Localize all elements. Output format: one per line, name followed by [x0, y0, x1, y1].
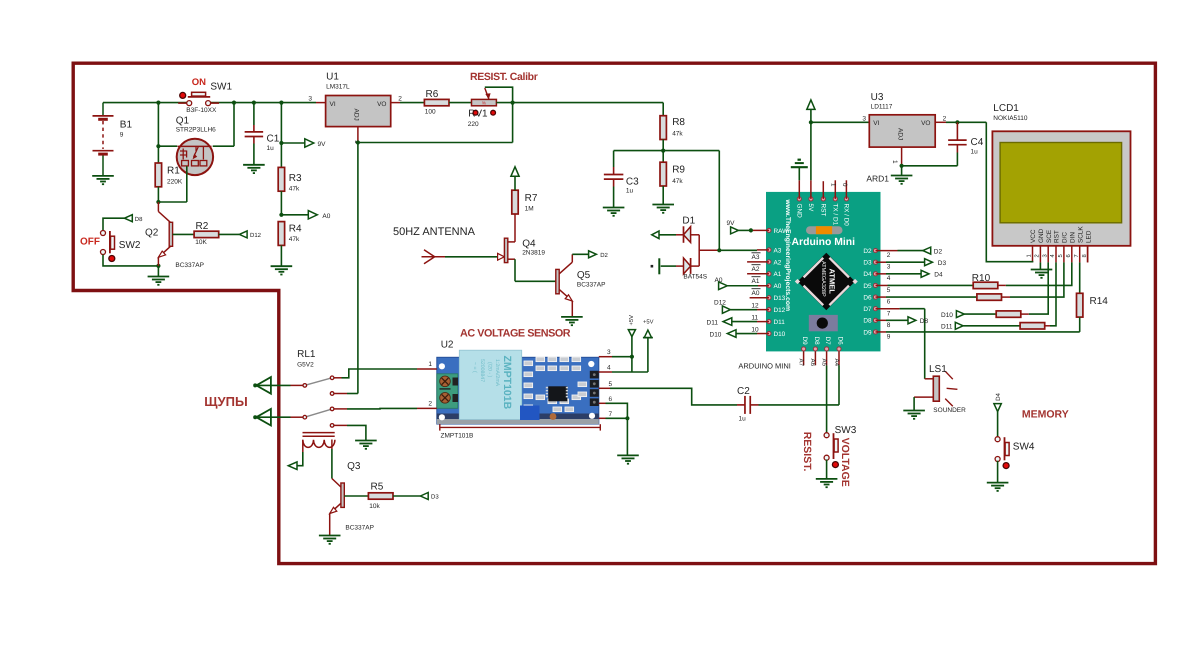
wire D11 row — [732, 321, 769, 323]
svg-text:8: 8 — [887, 322, 891, 329]
wire contact1 NO to U2 pin1 — [334, 369, 417, 378]
svg-text:ZMPT101B: ZMPT101B — [441, 433, 474, 440]
junction node C4 — [955, 120, 959, 124]
junction node A3 — [717, 248, 721, 252]
wire coil to Q3 collector — [331, 440, 333, 479]
power +5V terminal down triangle — [628, 315, 635, 372]
terminal stub left of BAT54S — [651, 258, 676, 274]
svg-text:47k: 47k — [672, 178, 683, 185]
svg-text:R1: R1 — [167, 166, 180, 177]
svg-text:RESIST.: RESIST. — [801, 432, 813, 472]
wire D8 to SW2 — [103, 218, 125, 230]
wire D8 row — [876, 319, 910, 321]
transistor Q4 2N3819 — [498, 238, 546, 262]
wire divider to A3 column — [718, 151, 720, 251]
svg-text:~ = (: ~ = ( — [472, 362, 478, 373]
wire Q5 collector to D2 — [572, 253, 588, 255]
antenna symbol — [422, 250, 446, 264]
transistor Q2 BC337AP — [145, 202, 204, 269]
terminal D2 at Arduino — [923, 247, 943, 255]
wire D4 row — [876, 273, 923, 275]
wire U2 pin5 stub — [599, 387, 610, 389]
svg-text:3: 3 — [308, 96, 312, 103]
terminal D12 into Arduino — [722, 306, 730, 313]
svg-text:A2: A2 — [774, 259, 782, 266]
wire Q1 left lead — [158, 145, 177, 147]
svg-text:D4: D4 — [934, 271, 943, 278]
svg-text:12: 12 — [751, 303, 759, 310]
svg-text:A0: A0 — [774, 283, 782, 290]
crystal on Arduino — [809, 315, 838, 331]
svg-text:A3: A3 — [752, 254, 760, 261]
ground for SW3 — [816, 460, 838, 489]
power +5V arrow up — [643, 320, 654, 373]
wire LCD RST column — [1050, 262, 1056, 325]
wire Q4 source to Q5 base — [515, 259, 556, 281]
svg-text:RST: RST — [1054, 230, 1061, 243]
svg-text:D10: D10 — [774, 331, 786, 338]
svg-text:D12: D12 — [250, 232, 262, 239]
Arduino top pin names — [796, 204, 850, 227]
svg-text:NOKIA5110: NOKIA5110 — [993, 115, 1028, 122]
svg-text:9: 9 — [120, 132, 124, 139]
svg-text:2: 2 — [1034, 254, 1041, 257]
probe terminal 2 — [253, 409, 271, 426]
ground for LS1 — [903, 397, 925, 420]
ground for Q3 — [319, 535, 341, 537]
svg-text:D8: D8 — [813, 337, 820, 346]
svg-text:3: 3 — [1041, 254, 1048, 257]
net label A2 — [752, 265, 761, 273]
wire Q1 right to rail — [213, 103, 234, 147]
ground for R4 — [271, 265, 293, 267]
svg-text:D2: D2 — [600, 252, 608, 259]
svg-text:0: 0 — [841, 183, 848, 187]
svg-text:C3: C3 — [626, 176, 639, 187]
svg-text:C2: C2 — [737, 386, 750, 397]
wire D10 to R12 — [964, 313, 996, 315]
svg-text:3: 3 — [887, 264, 891, 271]
switch SW2 OFF — [80, 231, 141, 262]
svg-text:D4: D4 — [995, 392, 1002, 400]
junction node pin7 ground — [625, 416, 629, 420]
wire U1 ADJ feedback — [358, 127, 513, 143]
resistor R7 — [512, 176, 538, 242]
wire A4 to C2 row — [838, 365, 840, 405]
svg-text:6: 6 — [609, 396, 613, 403]
LCD pin numbers — [1027, 254, 1088, 258]
resistor R11 — [977, 294, 1010, 300]
wire rail to U1 — [316, 102, 326, 104]
Arduino bottom pin stubs — [804, 351, 839, 365]
resistor R4 — [278, 222, 302, 267]
wire A0 tap — [281, 214, 309, 216]
ground for Q2 — [148, 266, 170, 286]
svg-text:1: 1 — [830, 183, 837, 187]
wire D4 to SW4 — [997, 412, 999, 438]
svg-text:C4: C4 — [971, 137, 984, 148]
svg-text:10k: 10k — [369, 503, 380, 510]
svg-text:(/20 - ): (/20 - ) — [487, 362, 493, 378]
Arduino bottom pin names — [801, 337, 843, 346]
Arduino right pin names — [863, 248, 872, 336]
svg-text:BC337AP: BC337AP — [175, 262, 204, 269]
wire coil left terminal — [297, 452, 303, 466]
svg-text:R6: R6 — [426, 89, 439, 100]
terminal down arrow D4 — [994, 404, 1001, 412]
svg-text:DIN: DIN — [1070, 232, 1077, 243]
svg-text:ЩУПЫ: ЩУПЫ — [204, 394, 247, 409]
svg-text:SW4: SW4 — [1013, 442, 1035, 453]
svg-text:A1: A1 — [774, 271, 782, 278]
display LCD1 NOKIA5110 — [992, 103, 1130, 246]
wire stub LCD LED — [1087, 246, 1089, 263]
ground for C1 — [243, 164, 265, 166]
svg-text:D8: D8 — [920, 318, 929, 325]
svg-text:SW2: SW2 — [119, 240, 141, 251]
wire RV1 wiper loop — [485, 87, 513, 142]
svg-text:VO: VO — [921, 120, 930, 127]
svg-text:ATMEL: ATMEL — [828, 269, 837, 295]
power arrow above R7 — [511, 167, 519, 177]
module U2 ZMPT101B board — [437, 350, 599, 424]
svg-text:D13: D13 — [774, 295, 786, 302]
wire stub RST — [822, 181, 824, 199]
svg-text:10K: 10K — [195, 239, 207, 246]
bracket ZMPT101B — [440, 424, 601, 439]
svg-text:U1: U1 — [326, 72, 339, 83]
svg-text:6: 6 — [1065, 254, 1072, 257]
net labels A7 A6 A5 A4 — [797, 359, 839, 367]
svg-text:D1: D1 — [682, 215, 695, 226]
svg-text:SW3: SW3 — [835, 425, 857, 436]
svg-text:R9: R9 — [672, 165, 685, 176]
terminal D10 at LCD — [956, 311, 964, 318]
svg-text:R3: R3 — [289, 173, 302, 184]
terminal D3 relay — [420, 493, 439, 501]
net label A3 — [752, 253, 761, 261]
svg-text:ARD1: ARD1 — [866, 174, 889, 184]
LCD pin names — [1030, 226, 1092, 243]
svg-text:1:2mA/2mA: 1:2mA/2mA — [494, 359, 500, 387]
svg-text:R4: R4 — [289, 224, 302, 235]
LCD pin stubs — [1033, 246, 1088, 263]
wire D12 row — [730, 309, 769, 311]
wire contact2 NC to ground — [334, 425, 366, 440]
terminal D11 into Arduino — [723, 318, 732, 326]
svg-text:D11: D11 — [707, 319, 719, 326]
svg-text:R2: R2 — [196, 221, 209, 232]
resistor R14 — [1077, 293, 1109, 332]
ground for R9 — [652, 204, 674, 206]
resistor R1 — [155, 146, 183, 202]
svg-text:LED: LED — [1085, 230, 1092, 243]
svg-text:B1: B1 — [120, 120, 133, 131]
svg-text:D7: D7 — [824, 337, 831, 346]
wire R5 to D3 — [393, 495, 420, 497]
regulator U3 LD1117 — [862, 92, 946, 164]
wire R2 to D12 — [219, 233, 240, 235]
capacitor C4 — [948, 122, 984, 166]
svg-text:Q4: Q4 — [522, 238, 536, 249]
transistor Q1 STR2P3LLH6 — [176, 115, 216, 175]
wire 9V tap — [281, 142, 305, 144]
relay contact 1 — [303, 376, 334, 395]
svg-text:R8: R8 — [672, 117, 685, 128]
svg-text:Arduino Mini: Arduino Mini — [792, 237, 856, 248]
resistor R9 — [660, 151, 685, 205]
svg-text:10: 10 — [751, 327, 759, 334]
svg-text:4: 4 — [607, 365, 611, 372]
ground for C3 — [603, 207, 625, 209]
svg-text:220: 220 — [468, 121, 479, 128]
U2 pin labels left — [428, 361, 432, 407]
Arduino left pin names — [774, 228, 790, 338]
svg-text:7: 7 — [609, 411, 613, 418]
svg-text:1: 1 — [428, 361, 432, 368]
wire U1 output to R6 — [391, 102, 424, 104]
transistor Q5 BC337AP — [556, 254, 606, 317]
svg-text:SOUNDER: SOUNDER — [933, 407, 966, 414]
wire LCD DC column — [1010, 262, 1064, 297]
svg-text:52008847: 52008847 — [479, 359, 485, 382]
svg-text:D12: D12 — [714, 300, 726, 307]
terminal arrow left of D1 — [652, 231, 659, 239]
svg-text:D3: D3 — [431, 494, 439, 501]
svg-text:VI: VI — [873, 120, 879, 127]
wire D6 row — [876, 296, 977, 298]
terminal D2 output — [589, 251, 609, 259]
switch SW1 — [178, 77, 232, 114]
wire antenna to Q4 gate — [445, 256, 498, 258]
junction node RV1 output — [510, 101, 514, 105]
transistor Q3 BC337AP — [330, 461, 374, 536]
svg-text:RAW: RAW — [774, 228, 790, 235]
junction node R8 R9 — [661, 149, 665, 153]
wire stub A1 — [747, 273, 769, 275]
svg-text:D5: D5 — [863, 283, 872, 290]
svg-text:VI: VI — [330, 101, 336, 108]
terminal D10 into Arduino — [727, 330, 736, 338]
svg-text:D11: D11 — [774, 319, 786, 326]
svg-text:5: 5 — [887, 287, 891, 294]
wire LCD DIN column — [1006, 262, 1072, 285]
wire 5V pin to U3 — [811, 107, 869, 199]
capacitor C2 — [737, 386, 750, 423]
wire U2 pin1 stub — [417, 368, 437, 370]
wire C2 left to U2 pin5 — [737, 404, 745, 406]
junction node ADJ — [356, 140, 360, 144]
wire A0 row — [727, 285, 769, 287]
capacitor C3 — [604, 151, 639, 208]
battery B1 — [93, 103, 133, 176]
svg-text:RST: RST — [820, 204, 827, 217]
svg-text:A3: A3 — [774, 247, 782, 254]
wire RV1 output rail — [496, 102, 663, 104]
wire Q3 base to R5 — [344, 495, 368, 497]
svg-text:R5: R5 — [371, 482, 384, 493]
resistor R8 — [660, 103, 685, 151]
svg-text:2: 2 — [428, 401, 432, 408]
svg-text:BC337AP: BC337AP — [577, 281, 606, 288]
svg-text:TX / D1: TX / D1 — [832, 204, 839, 226]
svg-text:1u: 1u — [971, 149, 979, 156]
svg-text:+5V: +5V — [643, 320, 654, 326]
svg-text:Q1: Q1 — [176, 115, 190, 126]
wire D7 to sounder — [876, 309, 925, 379]
wire R3 column top — [280, 103, 282, 168]
svg-text:D2: D2 — [863, 248, 872, 255]
junction node R1 bottom — [156, 200, 160, 204]
junction node C1 rail — [252, 101, 256, 105]
wire divider row — [614, 150, 720, 152]
wire SW2 to ground rail — [103, 255, 158, 266]
wire ADJ to relay NC — [357, 143, 359, 394]
wire D11 to R13 — [963, 325, 1020, 327]
svg-text:STR2P3LLH6: STR2P3LLH6 — [176, 126, 216, 133]
svg-text:VCC: VCC — [1030, 229, 1037, 243]
svg-text:9V: 9V — [727, 220, 736, 227]
svg-text:SW1: SW1 — [210, 82, 232, 93]
wire stub RX — [845, 180, 847, 199]
resistor R6 — [424, 89, 449, 115]
svg-text:ATMEGA328P: ATMEGA328P — [820, 261, 826, 297]
svg-text:LCD1: LCD1 — [993, 103, 1019, 114]
wire top rail left — [103, 102, 187, 104]
svg-text:GND: GND — [1038, 228, 1045, 243]
svg-text:D10: D10 — [710, 331, 722, 338]
svg-text:D/C: D/C — [1062, 232, 1069, 243]
svg-text:11: 11 — [751, 315, 758, 322]
terminal D4 at Arduino — [921, 270, 943, 278]
U2 pin labels right — [607, 349, 613, 418]
svg-text:D6: D6 — [863, 294, 872, 301]
svg-text:D9: D9 — [801, 337, 808, 346]
svg-text:RESIST. Calibr: RESIST. Calibr — [470, 71, 538, 83]
svg-text:5V: 5V — [807, 204, 814, 213]
svg-text:A2: A2 — [752, 266, 760, 273]
junction node 5V — [809, 120, 813, 124]
svg-text:A7: A7 — [797, 359, 804, 367]
svg-text:U2: U2 — [441, 340, 454, 351]
terminal D8 — [125, 215, 144, 223]
net label A0 — [752, 289, 761, 297]
svg-text:SCLK: SCLK — [1077, 226, 1084, 243]
terminal A0 — [308, 211, 330, 220]
svg-text:2: 2 — [398, 96, 402, 103]
svg-text:AC VOLTAGE SENSOR: AC VOLTAGE SENSOR — [460, 328, 571, 340]
wire probe2 to contact — [256, 416, 303, 418]
svg-text:BAT54S: BAT54S — [683, 274, 707, 281]
wire U2 pin2 stub — [417, 407, 437, 409]
probe terminal 1 — [253, 377, 271, 394]
wire Q2 base to R2 — [173, 233, 195, 235]
module U4 Arduino Mini board — [766, 192, 881, 352]
svg-text:3: 3 — [862, 115, 866, 122]
wire LCD VCC to U3 — [986, 122, 1032, 262]
terminal 9V — [305, 139, 326, 148]
svg-text:4: 4 — [887, 275, 891, 282]
wire U2 pin4 — [599, 371, 648, 373]
ground for LCD GND — [1031, 262, 1053, 278]
ground for contact2 — [355, 440, 377, 442]
svg-text:9: 9 — [887, 334, 891, 341]
capacitor C1 — [245, 103, 280, 165]
diode BAT54S lower — [676, 258, 708, 281]
svg-text:Q3: Q3 — [347, 461, 361, 472]
svg-text:1: 1 — [891, 160, 898, 164]
svg-text:ARDUINO MINI: ARDUINO MINI — [738, 361, 791, 370]
ground ARD1 — [866, 166, 912, 185]
svg-text:SCE: SCE — [1046, 230, 1053, 243]
wire U3 output — [935, 121, 986, 123]
sounder LS1 — [914, 364, 966, 414]
power arrow +5V above Arduino — [807, 100, 815, 110]
svg-text:R7: R7 — [525, 193, 538, 204]
switch SW3 — [824, 425, 857, 468]
wire LCD SCLK to R14 — [1079, 262, 1081, 293]
wire D2 row — [876, 250, 923, 252]
junction node ARD1 — [900, 164, 904, 168]
svg-text:100: 100 — [425, 109, 436, 116]
resistor R2 — [194, 221, 219, 246]
svg-text:+5V: +5V — [629, 315, 635, 326]
svg-text:B3F-10XX: B3F-10XX — [186, 107, 217, 114]
resistor R12 — [996, 311, 1029, 317]
svg-text:OFF: OFF — [80, 236, 100, 247]
svg-text:8: 8 — [1081, 254, 1088, 257]
terminal A0 into Arduino — [719, 282, 728, 290]
resistor R13 — [1020, 323, 1050, 329]
wire arrow to D1 — [659, 234, 676, 236]
regulator U1 LM317L — [308, 72, 402, 145]
wire U2 pin3 — [599, 356, 632, 358]
wire stub TX — [834, 180, 836, 199]
svg-text:Q2: Q2 — [145, 228, 159, 239]
svg-text:D11: D11 — [941, 324, 953, 331]
svg-text:A0: A0 — [322, 213, 330, 220]
svg-text:VOLTAGE: VOLTAGE — [839, 438, 851, 487]
wire D3 row — [876, 261, 926, 263]
svg-text:U3: U3 — [871, 92, 884, 103]
ground for Q5 — [561, 316, 583, 318]
svg-text:RL1: RL1 — [297, 349, 316, 360]
terminal D3 at Arduino — [925, 259, 947, 267]
svg-text:ON: ON — [192, 77, 206, 88]
svg-text:2N3819: 2N3819 — [522, 250, 545, 257]
wire contact2 NO to U2 pin2 — [334, 407, 417, 410]
wire LCD SCE column — [1029, 262, 1048, 314]
wire GND pin up — [798, 167, 800, 199]
svg-text:D8: D8 — [135, 216, 143, 223]
svg-text:1M: 1M — [525, 206, 534, 213]
svg-text:R14: R14 — [1090, 296, 1109, 307]
svg-text:1u: 1u — [626, 187, 634, 194]
svg-text:50HZ ANTENNA: 50HZ ANTENNA — [393, 226, 476, 238]
svg-text:BC337AP: BC337AP — [345, 525, 374, 532]
terminal arrow coil — [288, 462, 297, 470]
svg-text:5: 5 — [609, 381, 613, 388]
svg-text:ADJ: ADJ — [353, 109, 360, 121]
svg-text:D8: D8 — [863, 318, 872, 325]
junction node RAW — [749, 228, 753, 232]
svg-text:ADJ: ADJ — [896, 128, 903, 140]
terminal 9V RAW — [731, 227, 739, 234]
wire U2 pin6 — [599, 403, 628, 418]
label RL1 — [297, 349, 316, 369]
svg-text:1u: 1u — [267, 145, 275, 152]
svg-text:RX / D0: RX / D0 — [843, 204, 850, 227]
